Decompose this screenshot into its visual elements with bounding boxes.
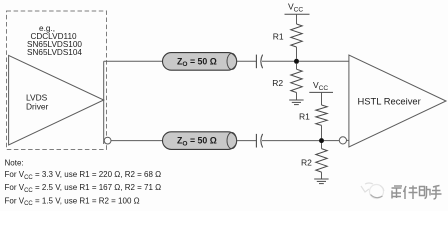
svg-text:For VCC = 2.5 V, use R1 = 167: For VCC = 2.5 V, use R1 = 167 Ω, R2 = 71… <box>5 183 162 194</box>
LVDS driver U1 triangle <box>9 55 104 145</box>
wire: node A to R2 <box>296 64 298 70</box>
note text block <box>5 159 162 208</box>
svg-text:R2: R2 <box>301 158 312 168</box>
resistor R1 (top pull-up) <box>273 24 302 47</box>
glyph 手 <box>431 186 442 200</box>
Vcc supply rail (top) <box>285 2 310 24</box>
capacitor C2 (bottom AC coupling) <box>256 134 262 148</box>
wire: capacitor to node A <box>262 60 294 62</box>
wire: transmission line to capacitor (bottom) <box>237 140 256 142</box>
wire: R2 to ground <box>296 93 298 101</box>
wire: R1 to node B <box>321 125 323 138</box>
ground symbol (bottom) <box>314 179 328 184</box>
driver inverted output circle <box>104 137 111 144</box>
svg-text:VCC: VCC <box>288 2 303 14</box>
node A junction dot <box>294 59 299 64</box>
svg-text:R1: R1 <box>273 32 284 42</box>
watermark text: 硬件助手 (drawn strokes) <box>392 186 442 200</box>
watermark logo (hand holding circle) <box>361 183 384 199</box>
LVDS Driver label <box>26 92 49 111</box>
svg-text:For VCC = 3.3 V, use R1 = 220: For VCC = 3.3 V, use R1 = 220 Ω, R2 = 68… <box>5 170 162 181</box>
svg-text:For VCC = 1.5 V, use R1 = R2 =: For VCC = 1.5 V, use R1 = R2 = 100 Ω <box>5 196 140 207</box>
node B junction dot <box>319 138 324 143</box>
wire: node A to receiver <box>299 60 349 62</box>
wire: transmission line to capacitor (top) <box>237 60 256 62</box>
svg-text:Driver: Driver <box>26 102 49 112</box>
dashed enclosure box <box>7 11 107 150</box>
svg-text:R1: R1 <box>299 112 310 122</box>
wire: driver output vertical bus <box>103 61 105 144</box>
wire: R1 to node A <box>296 47 298 59</box>
wire: capacitor to node B <box>262 140 319 142</box>
Vcc supply rail (bottom network) <box>309 80 333 105</box>
svg-text:SN65LVDS104: SN65LVDS104 <box>27 48 82 57</box>
glyph 硬 <box>392 188 402 199</box>
svg-text:R2: R2 <box>272 78 283 88</box>
wire: R2 to ground (bottom) <box>321 172 323 179</box>
wire: circle to receiver edge <box>347 139 349 141</box>
svg-text:VCC: VCC <box>313 80 328 92</box>
capacitor C1 (top AC coupling) <box>256 55 262 69</box>
transmission line T2 Zo=50 ohm (bottom) <box>163 132 237 150</box>
wire: node B to R2 <box>321 143 323 149</box>
svg-text:HSTL Receiver: HSTL Receiver <box>358 95 421 106</box>
wire: top output to transmission line <box>104 60 163 62</box>
svg-text:Note:: Note: <box>5 159 24 168</box>
resistor R2 (top pull-down) <box>272 69 302 92</box>
HSTL receiver U2 triangle <box>349 55 446 147</box>
glyph 件 <box>404 186 418 200</box>
resistor R1 (bottom pull-up) <box>299 105 327 125</box>
receiver inverting input circle <box>339 137 346 144</box>
transmission line T1 Zo=50 ohm (top) <box>163 53 237 71</box>
resistor R2 (bottom pull-down) <box>301 149 327 172</box>
device part numbers label <box>27 24 82 57</box>
ground symbol (top) <box>289 100 303 105</box>
glyph 助 <box>420 186 431 199</box>
wire: inverted output to bottom transmission line <box>111 140 163 142</box>
wire: node B to receiver input circle <box>324 140 339 142</box>
